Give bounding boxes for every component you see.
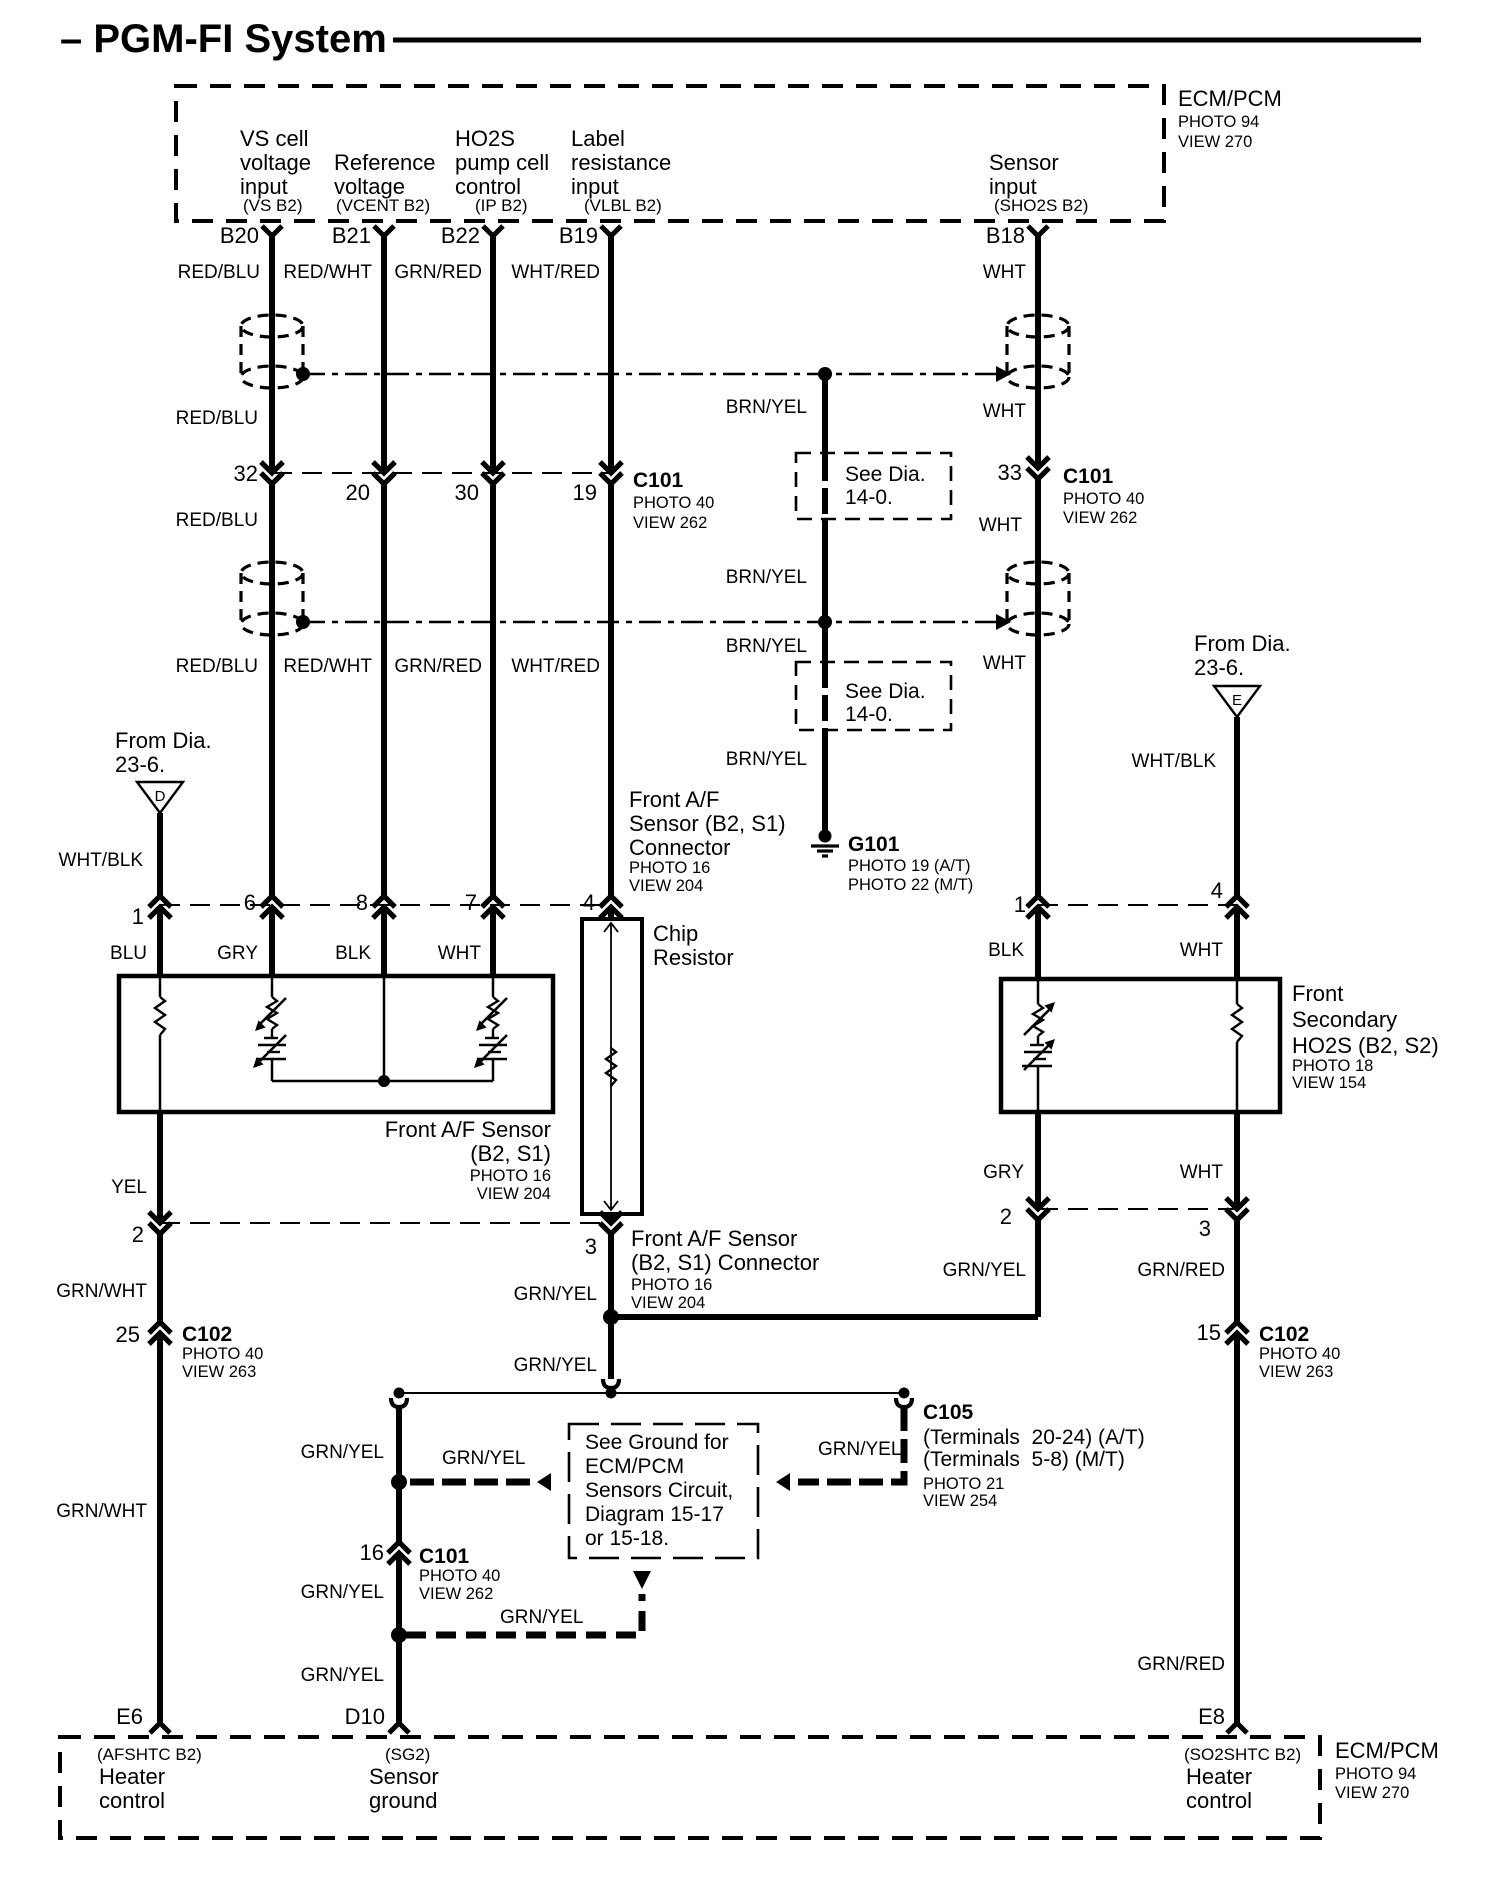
svg-text:See Dia.: See Dia.	[845, 463, 926, 486]
connector C101 pin 20	[346, 462, 395, 505]
svg-text:D: D	[155, 788, 166, 805]
svg-text:From Dia.: From Dia.	[1194, 631, 1291, 656]
label Chip Resistor	[653, 921, 734, 970]
wire color labels row4	[176, 653, 1027, 677]
sensor element wire6	[253, 978, 286, 1081]
svg-text:G101: G101	[848, 833, 900, 856]
svg-text:GRN/YEL: GRN/YEL	[301, 1665, 384, 1686]
connector left dashed line 2-3	[160, 1222, 611, 1224]
svg-text:WHT/RED: WHT/RED	[511, 262, 600, 283]
shield B18 row2	[1007, 562, 1069, 635]
title rule	[393, 38, 1421, 43]
svg-text:PHOTO 40: PHOTO 40	[182, 1345, 263, 1363]
svg-text:RED/BLU: RED/BLU	[176, 408, 258, 429]
connector pin 3 right	[1199, 1198, 1248, 1241]
svg-text:B20: B20	[220, 223, 259, 248]
connector C102 pin 25	[116, 1322, 171, 1347]
svg-text:25: 25	[116, 1322, 140, 1347]
svg-text:RED/WHT: RED/WHT	[283, 262, 372, 283]
connector right dashed line 2-3	[1038, 1208, 1237, 1210]
svg-text:WHT: WHT	[983, 653, 1027, 674]
svg-text:(SO2SHTC B2): (SO2SHTC B2)	[1184, 1745, 1301, 1764]
box See Dia 14-0 upper	[796, 453, 951, 519]
svg-text:(Terminals 5-8) (M/T): (Terminals 5-8) (M/T)	[923, 1448, 1125, 1471]
pin B20	[220, 223, 282, 248]
resistor heater element wire1	[155, 978, 165, 1110]
arrow from See Ground box bottom	[633, 1571, 651, 1589]
svg-text:Secondary: Secondary	[1292, 1007, 1397, 1032]
label C101 PHOTO 40 VIEW 262 right	[1063, 465, 1144, 527]
labels GRN/YEL GRN/RED right	[943, 1260, 1225, 1281]
label Front Secondary HO2S block	[1292, 981, 1439, 1092]
svg-text:WHT/BLK: WHT/BLK	[59, 850, 144, 871]
svg-text:BRN/YEL: BRN/YEL	[726, 636, 807, 657]
label C102 PHOTO 40 VIEW 263 right	[1259, 1323, 1340, 1381]
label C102 PHOTO 40 VIEW 263 left	[182, 1323, 263, 1381]
svg-text:PHOTO 94: PHOTO 94	[1178, 113, 1259, 131]
svg-text:HO2S (B2, S2): HO2S (B2, S2)	[1292, 1033, 1439, 1058]
svg-text:(SG2): (SG2)	[385, 1745, 430, 1764]
wire BRN/YEL shield drain vertical	[822, 374, 828, 831]
label G101 PHOTO 19 PHOTO 22	[848, 833, 973, 894]
pin B21	[332, 223, 394, 248]
svg-text:WHT: WHT	[983, 262, 1027, 283]
svg-text:See Ground for: See Ground for	[585, 1431, 729, 1454]
svg-text:D10: D10	[345, 1704, 385, 1729]
svg-text:GRN/RED: GRN/RED	[394, 656, 482, 677]
svg-text:PHOTO 40: PHOTO 40	[633, 494, 714, 512]
svg-text:WHT: WHT	[1180, 1162, 1224, 1183]
arrow into See Ground box left	[537, 1473, 551, 1491]
wire dashed C105 branch	[798, 1407, 904, 1482]
wire B21 RED/WHT	[381, 236, 387, 978]
junction dot lower branch	[391, 1627, 407, 1643]
svg-text:7: 7	[465, 890, 477, 915]
label C105 Terminals block	[923, 1401, 1145, 1510]
ground G101	[811, 830, 839, 857]
svg-text:2: 2	[132, 1222, 144, 1247]
label Label resistance input	[571, 126, 671, 215]
svg-text:WHT: WHT	[979, 515, 1023, 536]
box Front Secondary HO2S	[1001, 979, 1280, 1112]
svg-text:PHOTO 40: PHOTO 40	[1259, 1345, 1340, 1363]
node E triangle	[1214, 686, 1260, 717]
shield drain dash-dot line row1	[296, 366, 1011, 382]
svg-text:VIEW 204: VIEW 204	[477, 1185, 551, 1203]
label VS cell voltage input	[240, 126, 311, 215]
pin B22	[441, 223, 503, 248]
svg-text:WHT: WHT	[1180, 940, 1224, 961]
svg-text:(Terminals 20-24) (A/T): (Terminals 20-24) (A/T)	[923, 1426, 1145, 1449]
wire B19 WHT/RED	[608, 236, 614, 921]
shield B20 row1	[241, 315, 303, 388]
connector pin 4 right	[1211, 878, 1248, 918]
svg-text:VIEW 154: VIEW 154	[1292, 1074, 1366, 1092]
label AFSHTC Heater control	[97, 1745, 202, 1813]
connector C101 dashed line	[272, 472, 611, 474]
svg-text:(B2, S1): (B2, S1)	[470, 1141, 551, 1166]
pin E8	[1198, 1704, 1247, 1733]
svg-text:C102: C102	[1259, 1323, 1309, 1346]
svg-text:GRN/YEL: GRN/YEL	[500, 1607, 583, 1628]
wire8 internal	[383, 978, 386, 1081]
svg-text:(AFSHTC B2): (AFSHTC B2)	[97, 1745, 202, 1764]
svg-text:WHT/RED: WHT/RED	[511, 656, 600, 677]
label Reference voltage	[334, 150, 436, 215]
wire color labels BLK WHT right	[988, 940, 1223, 961]
svg-text:(VLBL B2): (VLBL B2)	[584, 196, 662, 215]
arrow into See Ground box right	[776, 1473, 790, 1491]
connector C101 pin 19	[573, 462, 622, 505]
svg-text:8: 8	[356, 890, 368, 915]
svg-text:ECM/PCM: ECM/PCM	[1335, 1738, 1439, 1763]
svg-text:ground: ground	[369, 1788, 438, 1813]
svg-text:(IP B2): (IP B2)	[475, 196, 528, 215]
wire from E WHT/BLK	[1234, 717, 1240, 981]
wire chip to junction	[608, 1214, 614, 1317]
connector C101 pin 32	[234, 461, 283, 486]
svg-text:C102: C102	[182, 1323, 232, 1346]
ECM/PCM top dashed box	[176, 86, 1164, 221]
connector cup C105 branch	[896, 1398, 912, 1407]
svg-text:1: 1	[132, 904, 144, 929]
svg-text:C105: C105	[923, 1401, 974, 1424]
svg-text:ECM/PCM: ECM/PCM	[585, 1455, 684, 1478]
svg-text:PHOTO 16: PHOTO 16	[631, 1276, 712, 1294]
svg-text:GRN/YEL: GRN/YEL	[514, 1284, 597, 1305]
svg-text:Reference: Reference	[334, 150, 436, 175]
svg-text:C101: C101	[419, 1545, 470, 1568]
svg-text:19: 19	[573, 480, 597, 505]
svg-text:GRN/RED: GRN/RED	[1137, 1654, 1225, 1675]
svg-text:WHT: WHT	[983, 401, 1027, 422]
svg-text:B22: B22	[441, 223, 480, 248]
svg-text:Front: Front	[1292, 981, 1343, 1006]
svg-text:3: 3	[585, 1234, 597, 1259]
connector pin 2 right	[1000, 1198, 1049, 1229]
wire B20 RED/BLU	[269, 236, 275, 978]
svg-text:1: 1	[1014, 892, 1026, 917]
connector pin 8	[356, 890, 395, 918]
junction wire horizontal	[603, 1309, 1038, 1325]
svg-text:Diagram 15-17: Diagram 15-17	[585, 1503, 724, 1526]
svg-text:23-6.: 23-6.	[1194, 655, 1244, 680]
svg-text:PHOTO 21: PHOTO 21	[923, 1475, 1004, 1493]
svg-text:VIEW 263: VIEW 263	[1259, 1363, 1333, 1381]
svg-text:VIEW 262: VIEW 262	[1063, 509, 1137, 527]
connector right dashed line 1-4	[1038, 904, 1237, 906]
svg-text:Front A/F Sensor: Front A/F Sensor	[631, 1226, 797, 1251]
wire YEL left	[157, 1112, 163, 1723]
svg-text:From Dia.: From Dia.	[115, 728, 212, 753]
svg-text:control: control	[99, 1788, 165, 1813]
svg-text:6: 6	[244, 890, 256, 915]
svg-text:GRY: GRY	[217, 943, 258, 964]
svg-text:VS cell: VS cell	[240, 126, 308, 151]
svg-text:VIEW 262: VIEW 262	[633, 514, 707, 532]
svg-text:HO2S: HO2S	[455, 126, 515, 151]
wire dashed branch to See Ground bottom	[406, 1594, 642, 1635]
svg-text:BLK: BLK	[335, 943, 371, 964]
svg-text:16: 16	[360, 1540, 384, 1565]
svg-text:Sensor: Sensor	[989, 150, 1059, 175]
svg-text:GRN/YEL: GRN/YEL	[943, 1260, 1026, 1281]
box Chip Resistor	[582, 919, 642, 1214]
shield B18 row1	[1007, 315, 1069, 388]
svg-text:30: 30	[455, 480, 479, 505]
svg-text:Chip: Chip	[653, 921, 698, 946]
svg-text:VIEW 204: VIEW 204	[629, 877, 703, 895]
svg-text:C101: C101	[633, 469, 684, 492]
connector pin 4	[583, 890, 622, 918]
svg-text:23-6.: 23-6.	[115, 752, 165, 777]
wire WHT right to E8	[1234, 1112, 1240, 1723]
svg-text:or 15-18.: or 15-18.	[585, 1527, 669, 1550]
svg-text:BRN/YEL: BRN/YEL	[726, 397, 807, 418]
svg-text:Resistor: Resistor	[653, 945, 734, 970]
svg-text:PHOTO 40: PHOTO 40	[419, 1567, 500, 1585]
svg-text:PHOTO 94: PHOTO 94	[1335, 1765, 1416, 1783]
svg-text:PHOTO 16: PHOTO 16	[629, 859, 710, 877]
svg-text:– PGM-FI System: – PGM-FI System	[60, 17, 387, 61]
box See Ground note	[569, 1424, 758, 1558]
connector C102 pin 15	[1197, 1320, 1248, 1345]
label Front A/F Sensor (B2,S1) block	[385, 1117, 551, 1203]
svg-text:VIEW 262: VIEW 262	[419, 1585, 493, 1603]
svg-text:GRN/WHT: GRN/WHT	[56, 1281, 147, 1302]
svg-text:voltage: voltage	[240, 150, 311, 175]
label Front A/F Sensor Connector upper	[629, 787, 786, 895]
svg-text:pump cell: pump cell	[455, 150, 549, 175]
label ECM/PCM PHOTO 94 VIEW 270 top	[1178, 86, 1282, 151]
svg-text:VIEW 270: VIEW 270	[1335, 1784, 1409, 1802]
svg-text:GRN/RED: GRN/RED	[394, 262, 482, 283]
svg-text:E8: E8	[1198, 1704, 1225, 1729]
label ECM/PCM PHOTO 94 VIEW 270 bottom	[1335, 1738, 1439, 1802]
connector pin 2 left	[132, 1212, 171, 1247]
svg-text:Front A/F Sensor: Front A/F Sensor	[385, 1117, 551, 1142]
wire from D WHT/BLK	[157, 813, 163, 978]
svg-text:(VCENT B2): (VCENT B2)	[336, 196, 430, 215]
svg-text:WHT: WHT	[438, 943, 482, 964]
svg-text:VIEW 204: VIEW 204	[631, 1294, 705, 1312]
svg-text:YEL: YEL	[111, 1177, 147, 1198]
svg-text:GRY: GRY	[983, 1162, 1024, 1183]
svg-text:32: 32	[234, 461, 258, 486]
connector pin 1	[132, 896, 171, 929]
box Front A/F Sensor	[119, 976, 553, 1112]
svg-text:B21: B21	[332, 223, 371, 248]
wire GRY right	[1035, 1112, 1041, 1317]
svg-text:PHOTO 22 (M/T): PHOTO 22 (M/T)	[848, 876, 973, 894]
svg-text:VIEW 263: VIEW 263	[182, 1363, 256, 1381]
pin D10	[345, 1704, 409, 1733]
svg-text:RED/BLU: RED/BLU	[176, 510, 258, 531]
svg-text:C101: C101	[1063, 465, 1114, 488]
svg-text:Sensors Circuit,: Sensors Circuit,	[585, 1479, 733, 1502]
svg-text:E6: E6	[116, 1704, 143, 1729]
svg-text:RED/BLU: RED/BLU	[176, 656, 258, 677]
internal bus wire	[272, 1075, 493, 1087]
connector A/F sensor dashed line	[160, 904, 611, 906]
svg-text:resistance: resistance	[571, 150, 671, 175]
node D triangle	[137, 782, 183, 813]
svg-text:GRN/WHT: GRN/WHT	[56, 1501, 147, 1522]
connector pin 1 right	[1014, 892, 1049, 918]
pin B19	[559, 223, 621, 248]
svg-text:GRN/RED: GRN/RED	[1137, 1260, 1225, 1281]
svg-text:4: 4	[1211, 878, 1223, 903]
svg-text:VIEW 270: VIEW 270	[1178, 133, 1252, 151]
svg-text:VIEW 254: VIEW 254	[923, 1492, 997, 1510]
svg-text:GRN/YEL: GRN/YEL	[301, 1582, 384, 1603]
wire B18 WHT	[1035, 236, 1041, 981]
svg-text:E: E	[1232, 692, 1242, 709]
wire SG2 vertical	[396, 1407, 402, 1723]
svg-text:Sensor: Sensor	[369, 1764, 439, 1789]
svg-text:BLU: BLU	[110, 943, 147, 964]
svg-text:GRN/YEL: GRN/YEL	[514, 1355, 597, 1376]
svg-text:4: 4	[583, 890, 595, 915]
sensor element wire7	[474, 978, 507, 1081]
svg-text:PHOTO 16: PHOTO 16	[470, 1167, 551, 1185]
sensor element HO2S left	[1022, 981, 1055, 1110]
svg-text:GRN/YEL: GRN/YEL	[301, 1442, 384, 1463]
label Front A/F Sensor Connector lower	[631, 1226, 819, 1312]
label HO2S pump cell control	[455, 126, 549, 215]
connector cup D10 branch	[391, 1398, 407, 1407]
chip resistor internal	[604, 923, 618, 1210]
pin E6	[116, 1704, 170, 1733]
svg-text:14-0.: 14-0.	[845, 703, 893, 726]
wire junction down to C101 line	[603, 1317, 619, 1388]
svg-text:BRN/YEL: BRN/YEL	[726, 567, 807, 588]
svg-text:PHOTO 40: PHOTO 40	[1063, 490, 1144, 508]
wire color labels BLU GRY BLK WHT	[110, 943, 481, 964]
svg-text:(VS B2): (VS B2)	[243, 196, 303, 215]
svg-text:Label: Label	[571, 126, 625, 151]
svg-text:WHT/BLK: WHT/BLK	[1132, 751, 1217, 772]
svg-text:GRN/YEL: GRN/YEL	[442, 1448, 525, 1469]
connector C101 pin 16	[360, 1540, 410, 1565]
label From Dia 23-6 left	[115, 728, 212, 777]
box See Dia 14-0 lower	[796, 662, 951, 730]
svg-text:3: 3	[1199, 1216, 1211, 1241]
svg-text:15: 15	[1197, 1320, 1221, 1345]
pin B18	[986, 223, 1048, 248]
svg-text:RED/BLU: RED/BLU	[178, 262, 260, 283]
svg-text:PHOTO 19 (A/T): PHOTO 19 (A/T)	[848, 857, 971, 875]
wire dashed branch to See Ground box	[410, 1479, 536, 1486]
svg-text:RED/WHT: RED/WHT	[283, 656, 372, 677]
shield B20 row2	[241, 562, 303, 635]
label C101 PHOTO 40 VIEW 262	[633, 469, 714, 532]
resistor heater HO2S right	[1232, 981, 1242, 1110]
label GRY WHT below box	[983, 1162, 1223, 1183]
svg-text:Connector: Connector	[629, 835, 731, 860]
svg-text:2: 2	[1000, 1204, 1012, 1229]
label From Dia 23-6 right	[1194, 631, 1291, 680]
svg-text:(B2, S1) Connector: (B2, S1) Connector	[631, 1250, 819, 1275]
junction dot see-ground branch	[391, 1474, 407, 1490]
svg-text:See Dia.: See Dia.	[845, 680, 926, 703]
connector pin 3 chip	[585, 1212, 622, 1259]
connector pin 6	[244, 890, 283, 918]
svg-text:Heater: Heater	[99, 1764, 165, 1789]
connector pin 7	[465, 890, 504, 918]
label Sensor input	[989, 150, 1088, 215]
svg-text:(SHO2S B2): (SHO2S B2)	[994, 196, 1088, 215]
svg-text:B19: B19	[559, 223, 598, 248]
svg-text:BLK: BLK	[988, 940, 1024, 961]
wire B22 GRN/RED	[490, 236, 496, 978]
svg-text:BRN/YEL: BRN/YEL	[726, 749, 807, 770]
connector C101 pin 30	[455, 462, 504, 505]
label SG2 Sensor ground	[369, 1745, 439, 1813]
svg-text:14-0.: 14-0.	[845, 486, 893, 509]
shield drain dash line row2	[296, 614, 1011, 630]
svg-text:Sensor (B2, S1): Sensor (B2, S1)	[629, 811, 786, 836]
svg-text:control: control	[1186, 1788, 1252, 1813]
svg-text:33: 33	[998, 460, 1022, 485]
svg-text:Heater: Heater	[1186, 1764, 1252, 1789]
wire color labels row1	[178, 262, 1027, 283]
ECM/PCM bottom dashed box	[60, 1737, 1320, 1838]
label SO2SHTC Heater control	[1184, 1745, 1301, 1813]
svg-text:B18: B18	[986, 223, 1025, 248]
svg-text:ECM/PCM: ECM/PCM	[1178, 86, 1282, 111]
svg-text:Front A/F: Front A/F	[629, 787, 719, 812]
svg-text:20: 20	[346, 480, 370, 505]
label C101 PHOTO 40 VIEW 262 bottom	[419, 1545, 500, 1603]
connector C101 pin 33	[998, 457, 1049, 485]
svg-text:GRN/YEL: GRN/YEL	[818, 1439, 901, 1460]
sensor ground bus thin line	[394, 1388, 910, 1399]
svg-text:PHOTO 18: PHOTO 18	[1292, 1057, 1373, 1075]
